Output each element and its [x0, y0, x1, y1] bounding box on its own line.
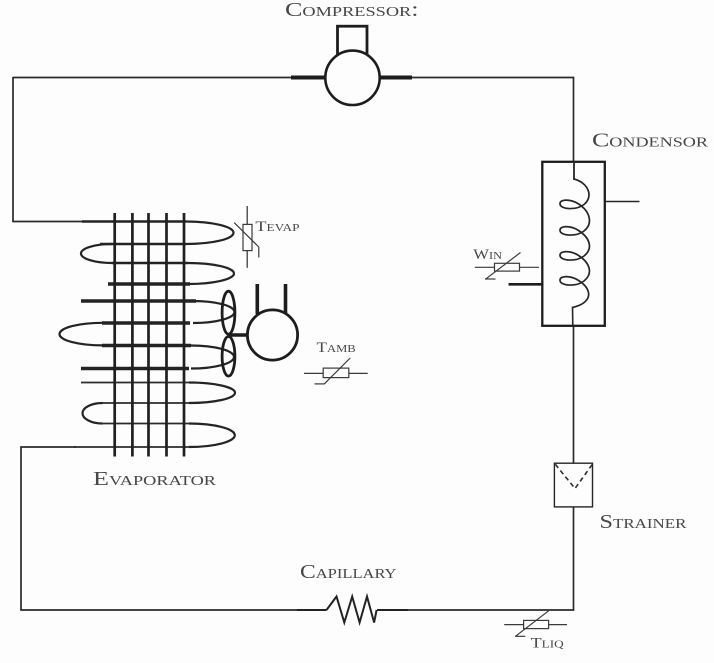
Tamb sensor body — [323, 368, 349, 378]
wire evaporator exit horizontal — [20, 446, 76, 448]
evaporator big left turn — [59, 323, 102, 346]
evaporator right turn 4 — [191, 346, 234, 369]
fan motor circle — [247, 310, 297, 360]
condensor inlet wire into coil — [573, 161, 575, 180]
evaporator row 2 — [100, 243, 186, 246]
Win sensor right stub — [520, 266, 540, 268]
fan blade bottom lobe — [222, 337, 235, 377]
evaporator fin 5 — [183, 213, 186, 457]
svg-text:Tamb: Tamb — [317, 340, 356, 356]
evaporator row 7 — [102, 344, 191, 347]
Tevap wire bottom — [246, 251, 248, 268]
wire bottom left segment — [20, 609, 297, 611]
condensor shell rectangle — [542, 162, 605, 326]
Tamb sensor foot — [315, 383, 325, 385]
wire bottom thick right stub — [377, 609, 408, 611]
fan shaft link — [229, 333, 247, 337]
evaporator fin 2 — [131, 213, 134, 457]
wire into evaporator row 1 — [12, 221, 83, 223]
wire left vertical — [12, 77, 14, 222]
Win sensor diagonal — [486, 253, 521, 280]
evaporator row 11 — [102, 423, 189, 425]
evaporator right turn 6 — [189, 424, 235, 448]
evaporator fin 4 — [165, 213, 168, 457]
wire bottom thick left stub — [297, 609, 327, 611]
fan terminal 2 — [284, 284, 288, 313]
Tliq sensor diagonal — [515, 610, 550, 637]
evaporator row 4 — [108, 282, 190, 285]
compressor body circle — [325, 51, 379, 105]
evaporator fin 1 — [113, 213, 116, 457]
svg-text:Tevap: Tevap — [255, 219, 299, 235]
svg-text:Win: Win — [473, 247, 502, 263]
wire bottom-left vertical riser — [20, 447, 22, 611]
wire right vertical mid — [573, 307, 575, 464]
evaporator right turn 5 — [189, 383, 235, 404]
svg-text:Strainer: Strainer — [600, 511, 688, 533]
compressor right thick stub — [380, 76, 412, 80]
Tliq sensor right stub — [549, 624, 567, 626]
fan blade top lobe — [222, 291, 235, 334]
fan terminal 1 — [255, 284, 259, 314]
evaporator row 10 — [102, 402, 189, 404]
evaporator row 5 — [81, 299, 196, 302]
wire top left horizontal — [13, 77, 291, 79]
strainer body — [554, 463, 592, 507]
evaporator right turn 1 — [186, 222, 234, 245]
condensor coil tail wire — [572, 307, 574, 327]
condensor left inlet thick stub — [509, 283, 544, 286]
capillary zigzag — [327, 597, 377, 623]
wire top right horizontal — [412, 77, 574, 79]
svg-text:Tliq: Tliq — [531, 636, 564, 652]
Tliq sensor body — [524, 620, 549, 628]
Tliq sensor left stub — [504, 624, 523, 626]
strainer screen dashed V — [555, 464, 592, 489]
Win sensor foot — [485, 278, 496, 280]
wire bottom right segment — [408, 609, 574, 611]
Tevap wire top — [246, 206, 248, 224]
Tamb sensor diagonal — [324, 358, 350, 384]
evaporator row 3 — [112, 262, 188, 265]
evaporator row 9 — [81, 382, 189, 384]
compressor head rectangle — [338, 26, 368, 60]
evaporator right turn 2 — [188, 263, 234, 284]
Tliq sensor foot — [515, 635, 525, 637]
svg-text:Capillary: Capillary — [300, 561, 397, 583]
svg-text:Condensor: Condensor — [592, 130, 709, 152]
Tevap sensor body — [243, 224, 252, 250]
evaporator fin 3 — [147, 213, 150, 457]
Tevap sensor foot — [258, 247, 260, 258]
evaporator row 8 — [81, 367, 189, 370]
Tevap sensor diagonal — [234, 223, 259, 247]
wire right vertical lower — [573, 507, 575, 611]
evaporator left turn 1 — [81, 244, 112, 263]
Tamb sensor right stub — [349, 372, 368, 374]
condensor right stub — [605, 201, 640, 203]
evaporator left turn 2 — [83, 403, 103, 424]
evaporator inlet row 1 — [82, 220, 186, 223]
svg-text:Compressor:: Compressor: — [285, 0, 419, 21]
Win sensor left stub — [475, 266, 495, 268]
wire right vertical upper — [573, 77, 575, 180]
svg-text:Evaporator: Evaporator — [93, 468, 217, 490]
Win sensor body — [495, 263, 520, 271]
evaporator row 6 — [102, 321, 190, 324]
condensor coil — [560, 179, 589, 308]
evaporator exit row 12 — [74, 446, 189, 448]
Tamb sensor left stub — [304, 372, 323, 374]
evaporator right turn 3 — [193, 301, 235, 323]
compressor left thick stub — [291, 76, 325, 80]
